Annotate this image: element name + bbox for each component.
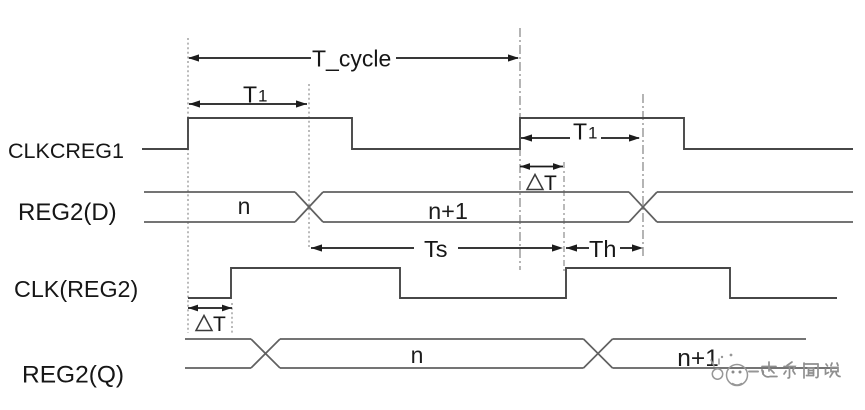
svg-text:T: T [573, 119, 587, 145]
svg-text:CLK(REG2): CLK(REG2) [14, 276, 138, 302]
svg-text:1: 1 [258, 87, 267, 106]
svg-text:T: T [213, 313, 226, 336]
svg-text:Th: Th [589, 236, 616, 262]
svg-text:1: 1 [588, 124, 597, 143]
svg-text:n+1: n+1 [677, 345, 719, 372]
svg-text:n: n [238, 193, 251, 219]
svg-text:REG2(D): REG2(D) [18, 199, 117, 226]
svg-text:Ts: Ts [424, 236, 448, 262]
svg-text:n: n [411, 342, 424, 368]
svg-text:T_cycle: T_cycle [312, 46, 391, 72]
svg-text:REG2(Q): REG2(Q) [22, 362, 124, 389]
svg-text:T: T [243, 82, 257, 108]
svg-text:CLKCREG1: CLKCREG1 [8, 139, 124, 163]
svg-text:T: T [544, 172, 557, 195]
svg-text:n+1: n+1 [428, 198, 468, 224]
